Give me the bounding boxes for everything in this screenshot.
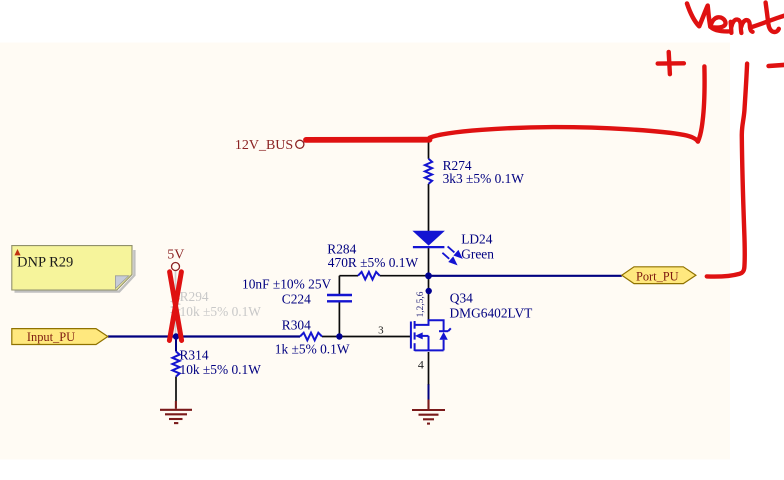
svg-text:10nF ±10% 25V: 10nF ±10% 25V [242, 276, 332, 291]
svg-text:R314: R314 [180, 347, 209, 362]
svg-text:R294: R294 [180, 289, 209, 304]
svg-text:10k ±5% 0.1W: 10k ±5% 0.1W [180, 362, 262, 377]
svg-text:3: 3 [378, 324, 384, 336]
svg-text:Input_PU: Input_PU [27, 330, 75, 344]
svg-text:4: 4 [418, 357, 424, 371]
svg-text:1k ±5% 0.1W: 1k ±5% 0.1W [275, 342, 350, 357]
svg-text:LD24: LD24 [461, 232, 493, 247]
svg-text:12V_BUS: 12V_BUS [235, 138, 293, 153]
svg-text:C224: C224 [282, 292, 311, 307]
svg-text:1,2,5,6: 1,2,5,6 [416, 291, 426, 317]
svg-text:3k3 ±5% 0.1W: 3k3 ±5% 0.1W [443, 171, 525, 186]
svg-text:DNP R29: DNP R29 [17, 255, 73, 271]
svg-text:Port_PU: Port_PU [636, 270, 679, 284]
svg-text:Green: Green [461, 247, 494, 262]
svg-text:R304: R304 [282, 318, 311, 333]
svg-text:DMG6402LVT: DMG6402LVT [450, 306, 533, 321]
svg-text:10k ±5% 0.1W: 10k ±5% 0.1W [180, 304, 262, 319]
svg-text:Q34: Q34 [450, 291, 473, 306]
svg-text:5V: 5V [167, 247, 184, 262]
svg-text:470R ±5% 0.1W: 470R ±5% 0.1W [328, 255, 419, 270]
